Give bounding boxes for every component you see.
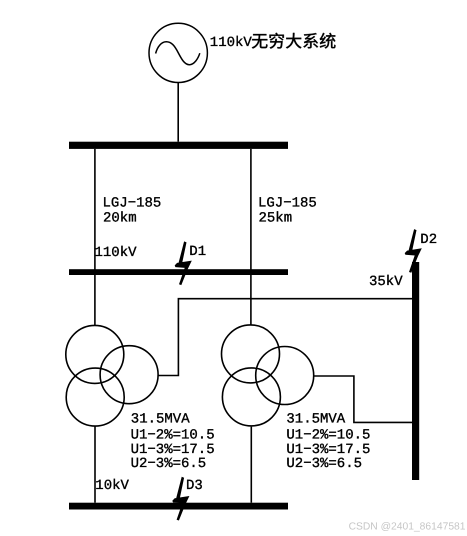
wire: left feeder LGJ−185 20km xyxy=(94,149,96,326)
svg-text:CSDN @2401_86147581: CSDN @2401_86147581 xyxy=(349,522,466,533)
transformer T1 bottom circle xyxy=(66,368,124,426)
top 110kV source bus xyxy=(69,142,288,149)
short-circuit point D3 xyxy=(172,477,189,521)
svg-text:D1: D1 xyxy=(189,244,206,260)
transformer T2 top winding circle xyxy=(222,325,280,383)
wire: source to top bus xyxy=(177,82,179,141)
svg-text:31.5MVA: 31.5MVA xyxy=(286,412,345,428)
svg-text:10kV: 10kV xyxy=(95,478,129,494)
110kV bus bar xyxy=(69,269,288,275)
short-circuit point D1 xyxy=(175,241,192,285)
svg-text:LGJ−185: LGJ−185 xyxy=(258,196,317,212)
svg-text:31.5MVA: 31.5MVA xyxy=(131,412,190,428)
35kV bus bar (vertical) xyxy=(412,262,419,480)
svg-text:20km: 20km xyxy=(103,211,137,227)
wire: T1 35kV winding to 35kV bus xyxy=(158,299,412,376)
short-circuit point D2 xyxy=(405,229,422,273)
sine wave inside source xyxy=(156,42,200,65)
wire: right feeder LGJ−185 25km xyxy=(250,149,252,325)
svg-text:110kV: 110kV xyxy=(210,35,253,51)
svg-text:35kV: 35kV xyxy=(369,274,403,290)
label: CJK title (infinite bus system) xyxy=(252,33,336,49)
wire: T2 35kV winding to 35kV bus xyxy=(314,376,412,422)
svg-text:D3: D3 xyxy=(186,478,203,494)
AC source G: 110kV infinite system xyxy=(149,23,207,82)
svg-text:25km: 25km xyxy=(259,211,293,227)
wire: T2 to 10kV bus xyxy=(250,427,252,503)
transformer T2 right circle xyxy=(256,347,314,405)
transformer T1 right circle xyxy=(100,346,158,404)
svg-text:U2−3%=6.5: U2−3%=6.5 xyxy=(286,456,362,472)
svg-text:LGJ−185: LGJ−185 xyxy=(103,196,162,212)
svg-text:110kV: 110kV xyxy=(95,245,138,261)
10kV bus bar xyxy=(69,503,288,510)
wire: T1 to 10kV bus xyxy=(94,426,96,503)
transformer T2 bottom circle xyxy=(222,368,280,426)
svg-text:U2−3%=6.5: U2−3%=6.5 xyxy=(131,456,207,472)
transformer T1 top winding circle xyxy=(66,325,124,383)
svg-text:D2: D2 xyxy=(420,232,437,248)
